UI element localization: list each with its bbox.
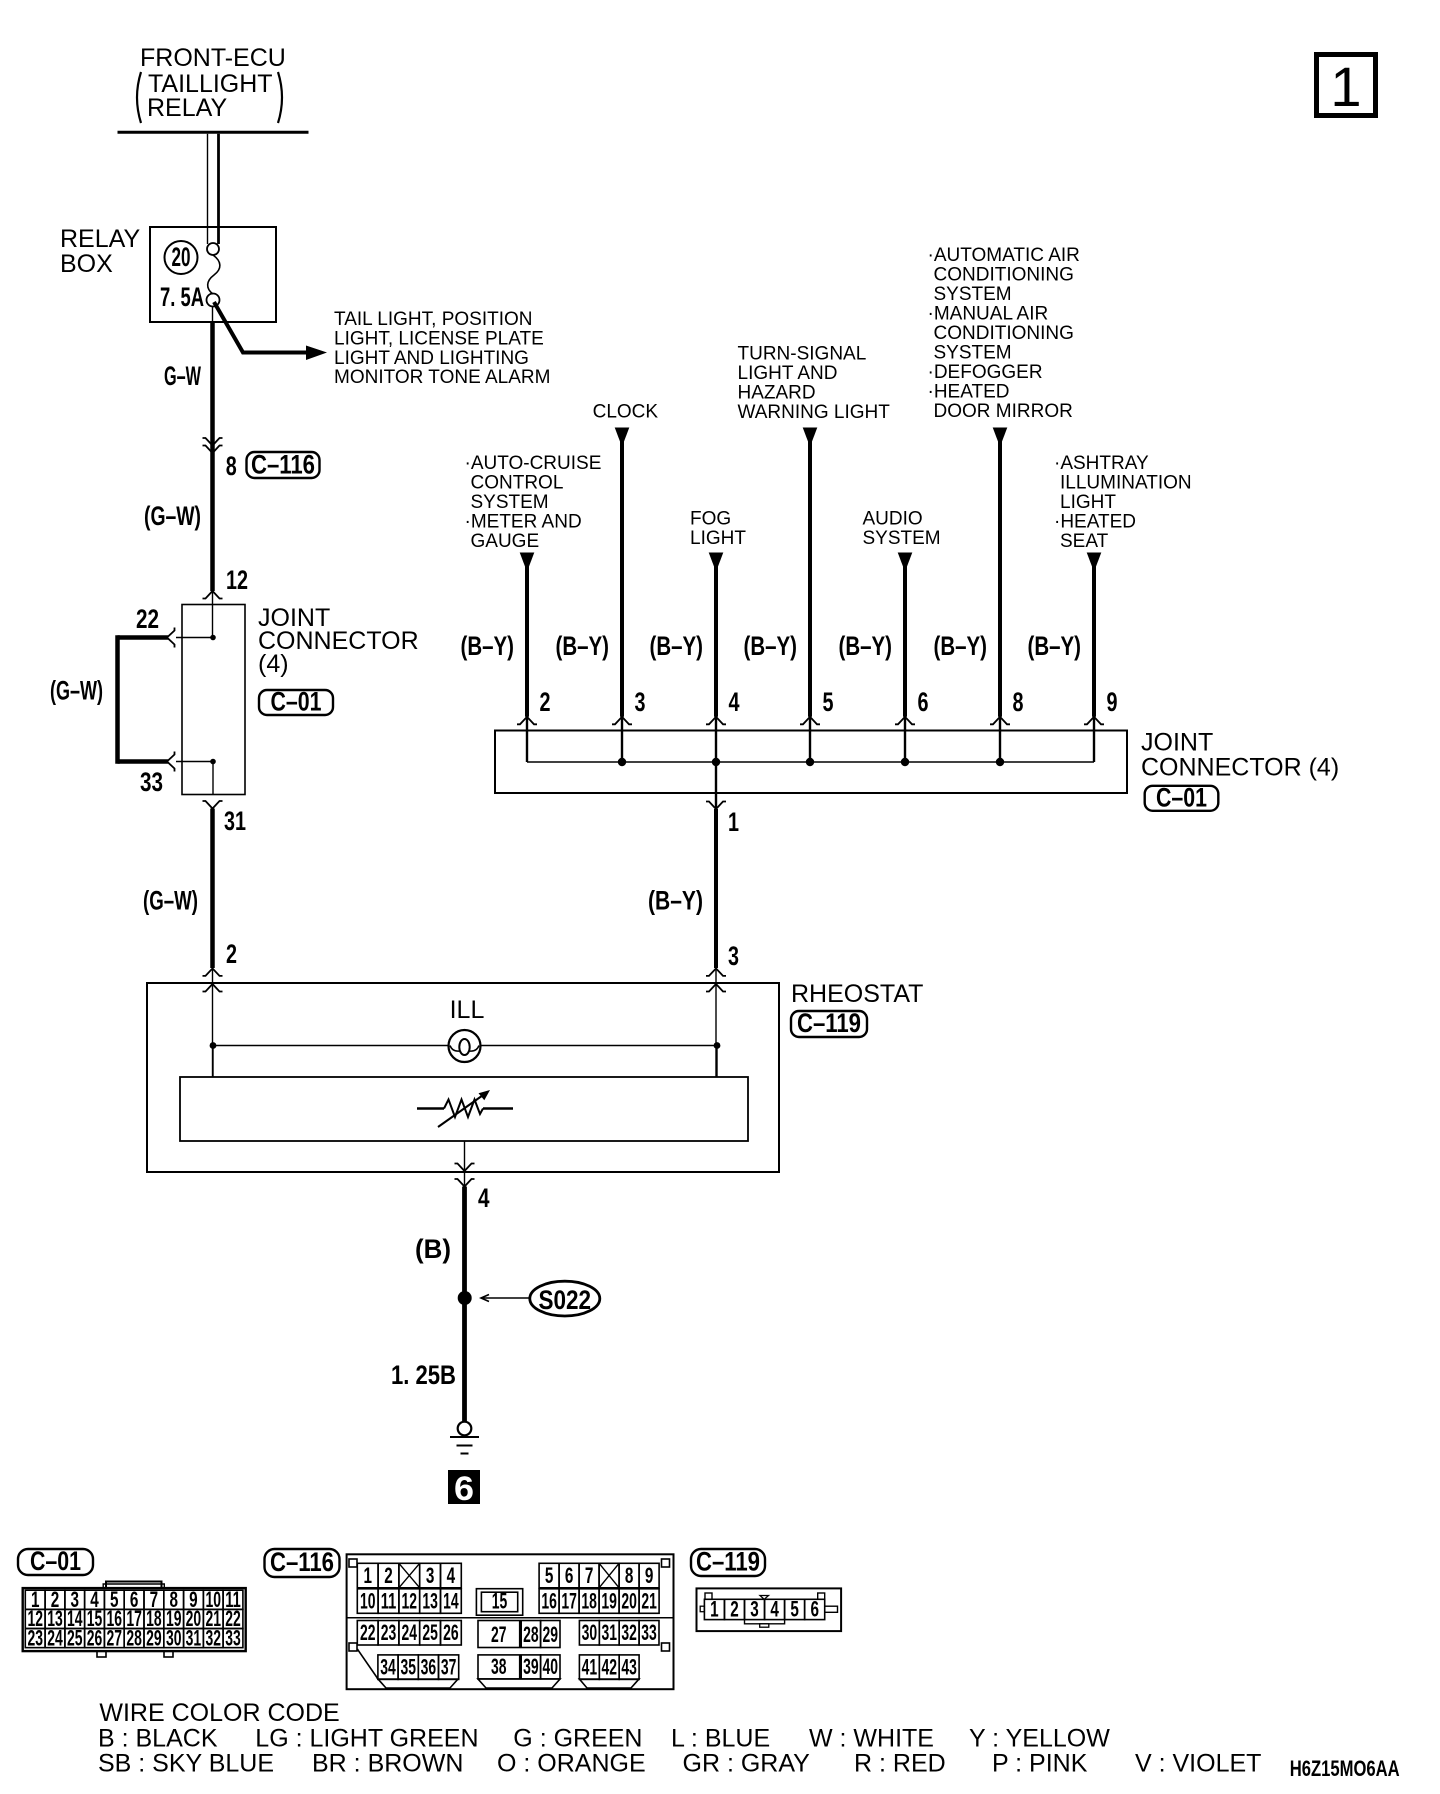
svg-text:CONNECTOR (4): CONNECTOR (4) bbox=[1141, 754, 1339, 782]
svg-text:LIGHT, LICENSE PLATE: LIGHT, LICENSE PLATE bbox=[334, 329, 544, 350]
svg-text:15: 15 bbox=[492, 1589, 508, 1614]
svg-text:L : BLUE: L : BLUE bbox=[671, 1725, 770, 1753]
svg-text:FRONT-ECU: FRONT-ECU bbox=[140, 44, 286, 72]
svg-text:(B–Y): (B–Y) bbox=[1028, 631, 1082, 661]
svg-text:C–116: C–116 bbox=[270, 1547, 334, 1577]
svg-text:19: 19 bbox=[601, 1588, 617, 1613]
svg-text:·HEATED: ·HEATED bbox=[1054, 512, 1136, 533]
svg-text:V : VIOLET: V : VIOLET bbox=[1135, 1750, 1261, 1778]
svg-text:BR : BROWN: BR : BROWN bbox=[312, 1750, 463, 1778]
svg-text:33: 33 bbox=[225, 1625, 241, 1650]
svg-text:32: 32 bbox=[621, 1620, 637, 1645]
svg-text:(G–W): (G–W) bbox=[144, 501, 201, 531]
svg-text:39: 39 bbox=[523, 1654, 539, 1679]
svg-text:(B–Y): (B–Y) bbox=[744, 631, 798, 661]
svg-text:28: 28 bbox=[126, 1625, 142, 1650]
svg-text:·DEFOGGER: ·DEFOGGER bbox=[928, 362, 1043, 383]
svg-text:TAIL LIGHT, POSITION: TAIL LIGHT, POSITION bbox=[334, 309, 532, 330]
svg-text:SYSTEM: SYSTEM bbox=[934, 343, 1012, 364]
svg-text:6: 6 bbox=[454, 1470, 474, 1508]
svg-text:26: 26 bbox=[443, 1620, 459, 1645]
svg-text:5: 5 bbox=[790, 1597, 799, 1622]
svg-text:21: 21 bbox=[641, 1588, 657, 1613]
svg-text:(B–Y): (B–Y) bbox=[650, 631, 704, 661]
svg-text:42: 42 bbox=[601, 1654, 617, 1679]
svg-text:2: 2 bbox=[540, 687, 551, 717]
svg-text:35: 35 bbox=[400, 1654, 416, 1679]
svg-text:1: 1 bbox=[710, 1597, 719, 1622]
svg-text:O : ORANGE: O : ORANGE bbox=[497, 1750, 646, 1778]
svg-text:·METER AND: ·METER AND bbox=[465, 512, 582, 533]
svg-text:4: 4 bbox=[770, 1597, 779, 1622]
svg-text:C–119: C–119 bbox=[797, 1008, 861, 1038]
svg-text:12: 12 bbox=[226, 565, 248, 595]
svg-text:10: 10 bbox=[360, 1588, 376, 1613]
svg-text:5: 5 bbox=[823, 687, 834, 717]
svg-text:24: 24 bbox=[47, 1625, 63, 1650]
svg-text:SYSTEM: SYSTEM bbox=[863, 528, 941, 549]
svg-text:SEAT: SEAT bbox=[1060, 531, 1109, 552]
svg-text:CONTROL: CONTROL bbox=[471, 473, 564, 494]
svg-text:LIGHT AND: LIGHT AND bbox=[738, 363, 838, 384]
svg-text:4: 4 bbox=[447, 1563, 456, 1588]
svg-text:7. 5A: 7. 5A bbox=[160, 282, 204, 312]
svg-text:25: 25 bbox=[422, 1620, 438, 1645]
svg-text:7: 7 bbox=[585, 1563, 594, 1588]
svg-text:6: 6 bbox=[810, 1597, 819, 1622]
svg-text:11: 11 bbox=[381, 1588, 397, 1613]
svg-text:ILLUMINATION: ILLUMINATION bbox=[1060, 473, 1192, 494]
svg-text:38: 38 bbox=[491, 1654, 507, 1679]
svg-text:14: 14 bbox=[443, 1588, 459, 1613]
svg-text:1: 1 bbox=[728, 807, 739, 837]
svg-text:20: 20 bbox=[621, 1588, 637, 1613]
svg-text:36: 36 bbox=[421, 1654, 437, 1679]
svg-text:43: 43 bbox=[621, 1654, 637, 1679]
svg-text:CLOCK: CLOCK bbox=[593, 402, 659, 423]
svg-text:WARNING LIGHT: WARNING LIGHT bbox=[738, 402, 891, 423]
svg-text:(B–Y): (B–Y) bbox=[934, 631, 988, 661]
svg-text:·HEATED: ·HEATED bbox=[928, 382, 1010, 403]
svg-text:37: 37 bbox=[441, 1654, 457, 1679]
svg-text:8: 8 bbox=[1013, 687, 1024, 717]
svg-text:SYSTEM: SYSTEM bbox=[471, 492, 549, 513]
svg-text:2: 2 bbox=[226, 939, 237, 969]
svg-text:40: 40 bbox=[543, 1654, 559, 1679]
svg-text:·ASHTRAY: ·ASHTRAY bbox=[1054, 453, 1149, 474]
svg-text:C–119: C–119 bbox=[696, 1547, 760, 1577]
svg-text:(G–W): (G–W) bbox=[143, 886, 198, 916]
svg-text:(4): (4) bbox=[258, 650, 289, 678]
svg-text:17: 17 bbox=[561, 1588, 577, 1613]
svg-text:C–116: C–116 bbox=[251, 450, 315, 480]
svg-text:P : PINK: P : PINK bbox=[992, 1750, 1088, 1778]
svg-text:RHEOSTAT: RHEOSTAT bbox=[791, 980, 923, 1008]
svg-text:Y : YELLOW: Y : YELLOW bbox=[969, 1725, 1110, 1753]
svg-text:2: 2 bbox=[730, 1597, 739, 1622]
svg-text:B : BLACK: B : BLACK bbox=[98, 1725, 218, 1753]
svg-text:RELAY: RELAY bbox=[60, 225, 140, 253]
svg-text:31: 31 bbox=[601, 1620, 617, 1645]
svg-text:27: 27 bbox=[107, 1625, 123, 1650]
svg-text:1: 1 bbox=[363, 1563, 372, 1588]
svg-text:(B–Y): (B–Y) bbox=[839, 631, 893, 661]
svg-text:C–01: C–01 bbox=[1156, 783, 1207, 813]
svg-text:S022: S022 bbox=[539, 1285, 592, 1315]
svg-text:C–01: C–01 bbox=[30, 1546, 81, 1576]
svg-text:22: 22 bbox=[360, 1620, 376, 1645]
svg-text:9: 9 bbox=[1107, 687, 1118, 717]
svg-text:G–W: G–W bbox=[164, 361, 201, 391]
svg-text:LIGHT AND LIGHTING: LIGHT AND LIGHTING bbox=[334, 348, 529, 369]
svg-text:(B–Y): (B–Y) bbox=[556, 631, 610, 661]
svg-text:5: 5 bbox=[545, 1563, 554, 1588]
svg-text:13: 13 bbox=[422, 1588, 438, 1613]
svg-text:33: 33 bbox=[641, 1620, 657, 1645]
svg-text:LIGHT: LIGHT bbox=[690, 528, 746, 549]
svg-text:SB : SKY BLUE: SB : SKY BLUE bbox=[98, 1750, 274, 1778]
svg-text:·MANUAL AIR: ·MANUAL AIR bbox=[928, 304, 1049, 325]
svg-text:33: 33 bbox=[140, 767, 163, 797]
svg-text:GAUGE: GAUGE bbox=[471, 531, 540, 552]
svg-text:GR : GRAY: GR : GRAY bbox=[683, 1750, 811, 1778]
svg-text:29: 29 bbox=[543, 1622, 559, 1647]
svg-text:TURN-SIGNAL: TURN-SIGNAL bbox=[738, 344, 867, 365]
svg-text:8: 8 bbox=[625, 1563, 634, 1588]
svg-text:MONITOR TONE ALARM: MONITOR TONE ALARM bbox=[334, 367, 550, 388]
svg-text:LIGHT: LIGHT bbox=[1060, 492, 1116, 513]
svg-text:C–01: C–01 bbox=[271, 687, 322, 717]
svg-text:24: 24 bbox=[402, 1620, 418, 1645]
svg-text:16: 16 bbox=[541, 1588, 557, 1613]
svg-text:BOX: BOX bbox=[60, 250, 113, 278]
svg-text:WIRE COLOR CODE: WIRE COLOR CODE bbox=[99, 1699, 339, 1727]
svg-text:ILL: ILL bbox=[450, 996, 485, 1024]
svg-text:6: 6 bbox=[918, 687, 929, 717]
svg-text:JOINT: JOINT bbox=[1141, 729, 1213, 757]
svg-text:DOOR MIRROR: DOOR MIRROR bbox=[934, 401, 1073, 422]
svg-text:8: 8 bbox=[226, 451, 237, 481]
svg-text:AUDIO: AUDIO bbox=[863, 509, 923, 530]
svg-text:4: 4 bbox=[478, 1183, 490, 1213]
svg-text:18: 18 bbox=[581, 1588, 597, 1613]
svg-text:H6Z15MO6AA: H6Z15MO6AA bbox=[1290, 1756, 1400, 1781]
svg-text:(B–Y): (B–Y) bbox=[648, 886, 703, 916]
svg-text:22: 22 bbox=[136, 604, 159, 634]
svg-text:R : RED: R : RED bbox=[854, 1750, 946, 1778]
svg-text:9: 9 bbox=[645, 1563, 654, 1588]
svg-text:SYSTEM: SYSTEM bbox=[934, 284, 1012, 305]
svg-text:27: 27 bbox=[491, 1622, 507, 1647]
svg-text:·AUTOMATIC AIR: ·AUTOMATIC AIR bbox=[928, 245, 1080, 266]
svg-text:6: 6 bbox=[565, 1563, 574, 1588]
svg-text:RELAY: RELAY bbox=[147, 94, 227, 122]
svg-text:4: 4 bbox=[729, 687, 740, 717]
svg-text:30: 30 bbox=[582, 1620, 598, 1645]
svg-text:(G–W): (G–W) bbox=[50, 676, 103, 706]
svg-text:41: 41 bbox=[582, 1654, 598, 1679]
svg-text:W : WHITE: W : WHITE bbox=[809, 1725, 934, 1753]
svg-text:(B–Y): (B–Y) bbox=[461, 631, 515, 661]
svg-text:3: 3 bbox=[750, 1597, 759, 1622]
svg-text:23: 23 bbox=[381, 1620, 397, 1645]
svg-text:CONDITIONING: CONDITIONING bbox=[934, 323, 1074, 344]
svg-text:2: 2 bbox=[384, 1563, 393, 1588]
svg-text:(B): (B) bbox=[415, 1234, 451, 1264]
svg-text:32: 32 bbox=[205, 1625, 221, 1650]
svg-text:CONDITIONING: CONDITIONING bbox=[934, 265, 1074, 286]
svg-text:3: 3 bbox=[635, 687, 646, 717]
svg-text:LG : LIGHT GREEN: LG : LIGHT GREEN bbox=[255, 1725, 478, 1753]
svg-text:23: 23 bbox=[27, 1625, 43, 1650]
svg-text:G : GREEN: G : GREEN bbox=[513, 1725, 642, 1753]
svg-text:29: 29 bbox=[146, 1625, 162, 1650]
svg-text:31: 31 bbox=[186, 1625, 202, 1650]
svg-text:30: 30 bbox=[166, 1625, 182, 1650]
svg-text:34: 34 bbox=[380, 1654, 396, 1679]
svg-text:28: 28 bbox=[523, 1622, 539, 1647]
svg-text:HAZARD: HAZARD bbox=[738, 383, 816, 404]
svg-text:20: 20 bbox=[172, 242, 191, 272]
svg-text:12: 12 bbox=[402, 1588, 418, 1613]
svg-text:31: 31 bbox=[224, 806, 246, 836]
svg-text:FOG: FOG bbox=[690, 509, 731, 530]
svg-text:3: 3 bbox=[426, 1563, 435, 1588]
svg-text:·AUTO-CRUISE: ·AUTO-CRUISE bbox=[465, 453, 602, 474]
svg-text:3: 3 bbox=[728, 941, 739, 971]
svg-text:25: 25 bbox=[67, 1625, 83, 1650]
svg-text:1. 25B: 1. 25B bbox=[391, 1360, 456, 1390]
svg-text:26: 26 bbox=[87, 1625, 103, 1650]
svg-text:1: 1 bbox=[1330, 55, 1361, 118]
